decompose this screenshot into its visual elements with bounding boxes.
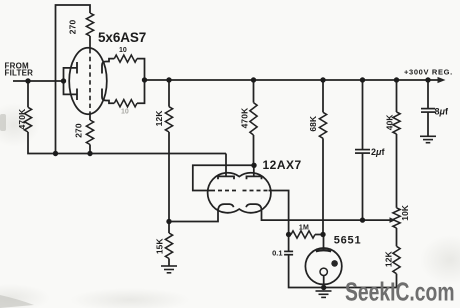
resistor R 10 upper cathode: [114, 55, 137, 62]
wire grid drive line C: [56, 153, 227, 155]
svg-text:270: 270: [68, 19, 78, 34]
wire 0.1 cap top lead: [288, 235, 290, 252]
wire from-filter input line: [13, 80, 64, 82]
svg-text:470K: 470K: [17, 109, 27, 130]
scan smudge bottom left: [0, 295, 34, 308]
node input/plates: [61, 78, 66, 83]
cathode V2 left: [218, 204, 233, 210]
resistor R 470K plate load: [250, 103, 257, 135]
anode bar V3: [316, 250, 331, 251]
node output/2uf: [360, 77, 365, 82]
wire tube bottom grid to 270: [89, 114, 91, 121]
wire 8uf top lead: [427, 80, 429, 109]
potentiometer R 10K: [393, 208, 400, 228]
wire upper-left plate lead: [64, 68, 78, 81]
wire 270 bottom lead: [89, 145, 91, 154]
wire 1M right lead: [315, 234, 323, 236]
wiper arrow 10K: [390, 217, 396, 223]
wire 10 upper to output node: [137, 59, 145, 80]
plate upper-left V1: [76, 62, 78, 74]
resistor R 68K reference feed: [319, 112, 326, 138]
wire 8uf bottom lead: [427, 112, 429, 136]
wire pot to 12K-2: [396, 228, 398, 246]
wire 68K down to 5651 anode node: [322, 138, 324, 234]
svg-text:SeekIC.com: SeekIC.com: [345, 277, 455, 307]
wire 2uf bottom to sample line: [362, 153, 364, 220]
wire +300V regulated output bus: [145, 79, 439, 81]
svg-text:1M: 1M: [299, 225, 309, 232]
node sample/2uf: [360, 217, 365, 222]
svg-text:FILTER: FILTER: [5, 68, 34, 77]
resistor R 270 top grid: [86, 13, 93, 36]
svg-text:10: 10: [119, 47, 127, 54]
wire 12K-2 bottom to ground line: [396, 274, 398, 288]
wire V2 left plate lead to grid line: [225, 154, 227, 177]
svg-text:5651: 5651: [334, 235, 362, 247]
wire lower-left plate lead: [64, 81, 78, 94]
resistor R 40K divider upper: [393, 112, 400, 134]
node output/12K: [166, 77, 171, 82]
wire 470K-1 bottom lead to grid line: [28, 132, 56, 154]
wire upper-right cathode lead: [106, 59, 114, 62]
wire 40K top lead: [396, 80, 398, 112]
node grid line/loop: [53, 151, 58, 156]
wire V2 right cathode to sample line D2: [262, 210, 390, 220]
wire 1M left lead: [289, 234, 291, 236]
capacitor C 0.1 plates: [284, 250, 293, 252]
wire 15K top lead: [168, 222, 170, 234]
wire cathode line D1: [169, 209, 218, 222]
grid V2 left dashed: [211, 190, 237, 192]
resistor R 10 lower cathode: [114, 100, 137, 107]
ground below 8uf: [420, 136, 436, 142]
node cathode/12K/15K: [166, 219, 171, 224]
resistor R 12K divider lower: [393, 246, 400, 273]
wire V2 right plate lead: [253, 165, 255, 176]
wire V3 anode lead: [323, 235, 325, 250]
gas dot V3: [331, 260, 338, 267]
cathode V2 right: [246, 204, 261, 210]
svg-text:2μf: 2μf: [371, 147, 385, 157]
svg-text:8μf: 8μf: [435, 107, 449, 117]
node output/470K2: [251, 77, 256, 82]
wire 10 lower to output node: [137, 80, 145, 103]
node grid line/270: [87, 151, 92, 156]
arrowhead +300V output: [438, 77, 446, 83]
wire 12K-1 bottom to cathode node: [168, 132, 170, 222]
cathode upper-right V1: [102, 62, 106, 74]
node 1M/68K/anode: [320, 232, 325, 237]
wire 2uf top lead: [362, 80, 364, 150]
wire 68K top lead: [322, 80, 324, 112]
wire 0.1 bottom to ground line: [289, 255, 397, 288]
svg-text:5x6AS7: 5x6AS7: [98, 30, 146, 45]
node output/68K: [320, 77, 325, 82]
svg-text:40K: 40K: [385, 114, 395, 130]
capacitor C 8uf plates: [421, 108, 435, 110]
resistor R 270 bottom grid: [86, 120, 93, 145]
node right plate/470K: [251, 163, 256, 168]
wire right plate to left grid link: [193, 165, 254, 190]
svg-text:12AX7: 12AX7: [263, 158, 302, 172]
svg-text:10K: 10K: [400, 205, 410, 221]
wire 12K-1 top lead: [168, 80, 170, 107]
node input/470K: [25, 78, 30, 83]
svg-text:270: 270: [74, 123, 84, 138]
node ground/5651: [321, 285, 326, 290]
wire V2 right grid lead down: [269, 191, 289, 235]
resistor R 470K (input bleeder): [24, 107, 31, 132]
svg-text:12K: 12K: [154, 110, 164, 126]
capacitor C 2uf plates: [355, 149, 370, 151]
node grid/1M/0.1: [286, 232, 291, 237]
tube envelope V2 12AX7: [208, 173, 271, 213]
node output/8uf: [425, 77, 430, 82]
svg-text:68K: 68K: [308, 116, 318, 132]
svg-text:0.1: 0.1: [272, 248, 282, 257]
resistor R 15K cathode to ground: [165, 233, 172, 259]
plate bar V2 right: [247, 176, 262, 179]
svg-text:10: 10: [121, 109, 129, 116]
wire 470K-1 top lead: [27, 81, 29, 107]
tube envelope V3 5651: [305, 248, 341, 284]
ground below 5651: [316, 291, 332, 297]
cathode terminal V3: [320, 268, 327, 275]
plate lower-left V1: [76, 89, 78, 101]
grid V2 right dashed: [243, 190, 269, 192]
resistor R 12K bias divider upper: [165, 107, 172, 132]
cathode lower-right V1: [102, 89, 106, 101]
wire 470K-2 top lead: [253, 80, 255, 103]
node output/10ohm: [142, 77, 147, 82]
resistor R 1M grid isolation: [291, 231, 315, 238]
svg-text:15K: 15K: [155, 238, 165, 254]
wire V3 cathode to ground: [323, 276, 325, 288]
grid V1 dashed: [89, 49, 91, 114]
svg-text:+300V REG.: +300V REG.: [404, 68, 453, 77]
wire lower-right cathode lead: [106, 101, 114, 104]
svg-text:12K: 12K: [384, 251, 394, 267]
wire 270 top to tube grid: [89, 36, 91, 49]
plate bar V2 left: [218, 176, 234, 179]
ground below 15K: [161, 266, 177, 273]
wire 40K to pot: [396, 134, 398, 208]
tube envelope V1 5x6AS7: [69, 48, 107, 114]
wire loop vertical up left: [56, 5, 91, 154]
wire 15K bottom lead: [168, 259, 170, 266]
node output/40K: [394, 77, 399, 82]
svg-text:470K: 470K: [240, 108, 250, 129]
scan smudge left edge: [0, 114, 6, 131]
wire 470K-2 bottom lead: [253, 135, 256, 165]
